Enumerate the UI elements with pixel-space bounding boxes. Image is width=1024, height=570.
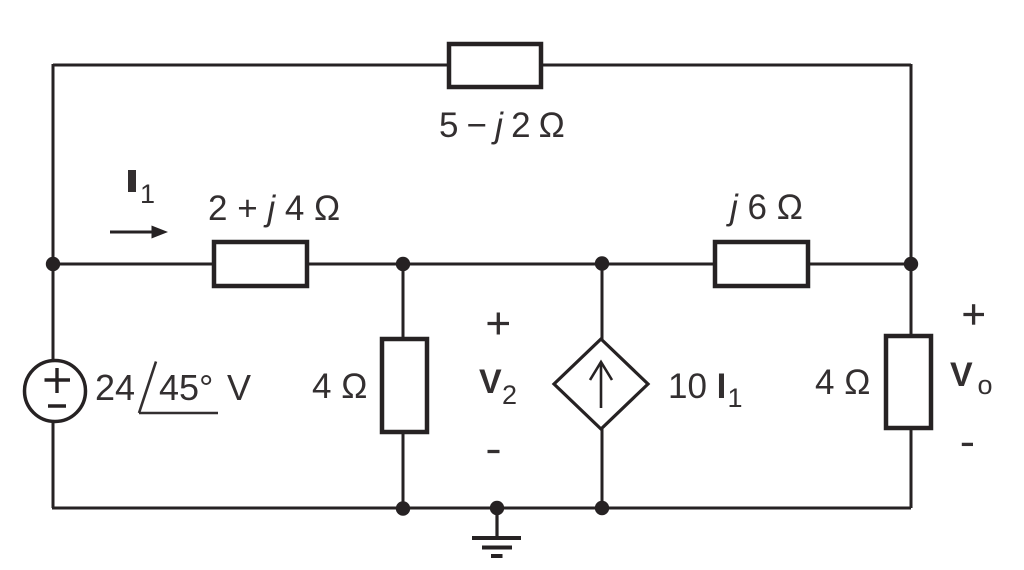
- wire bottom: [52, 507, 911, 510]
- label I1: [128, 170, 155, 209]
- svg-text:4 Ω: 4 Ω: [312, 367, 367, 406]
- label j6: [726, 188, 803, 227]
- svg-text:2: 2: [502, 380, 517, 410]
- resistor 4-ohm left: [382, 339, 427, 432]
- svg-text:1: 1: [140, 179, 155, 209]
- resistor 4-ohm right: [886, 336, 931, 428]
- wire branch 4-ohm left: [402, 264, 405, 508]
- wire right: [910, 64, 913, 508]
- svg-text:j 6 Ω: j 6 Ω: [726, 188, 803, 227]
- resistor 5-j2: [449, 44, 541, 87]
- svg-text:4 Ω: 4 Ω: [815, 363, 870, 402]
- label 24/45 V: [95, 362, 251, 414]
- wire branch current source: [601, 264, 604, 508]
- label 5-j2: [439, 106, 564, 145]
- node B top of source: [595, 256, 609, 270]
- label 2+j4: [208, 189, 340, 228]
- node ground: [490, 501, 504, 515]
- resistor j6: [715, 242, 808, 286]
- resistor 2+j4: [214, 242, 307, 286]
- label Vo plus: [963, 304, 984, 325]
- svg-text:1: 1: [728, 383, 743, 413]
- svg-text:24: 24: [95, 367, 135, 408]
- node bottom of source: [595, 501, 609, 515]
- svg-text:5 − j 2 Ω: 5 − j 2 Ω: [439, 106, 564, 145]
- label Vo minus: [962, 443, 973, 446]
- node A top of 4-ohm: [396, 257, 410, 271]
- svg-text:o: o: [978, 370, 993, 400]
- wire top: [53, 64, 911, 67]
- ground: [472, 508, 521, 556]
- wire middle horizontal: [53, 263, 911, 266]
- wire left: [52, 64, 55, 508]
- source V1 24/45: [25, 361, 86, 422]
- svg-text:2 + j 4 Ω: 2 + j 4 Ω: [208, 189, 340, 228]
- svg-text:45°: 45°: [159, 367, 213, 408]
- label 4-ohm left: [312, 367, 367, 406]
- label 10I1: [668, 367, 743, 413]
- svg-text:V: V: [227, 367, 251, 408]
- svg-text:V: V: [950, 356, 973, 394]
- node left middle: [46, 257, 60, 271]
- label V2: [479, 363, 517, 410]
- node right middle: [904, 257, 918, 271]
- svg-text:V: V: [479, 363, 502, 401]
- label V2 plus: [488, 313, 510, 335]
- node bottom of 4-ohm: [396, 501, 410, 515]
- label Vo: [950, 356, 993, 400]
- arrow I1: [110, 226, 168, 239]
- source dependent 10I1: [554, 339, 648, 429]
- label V2 minus: [488, 450, 500, 453]
- label 4-ohm right: [815, 363, 870, 402]
- svg-text:10 I: 10 I: [668, 367, 726, 406]
